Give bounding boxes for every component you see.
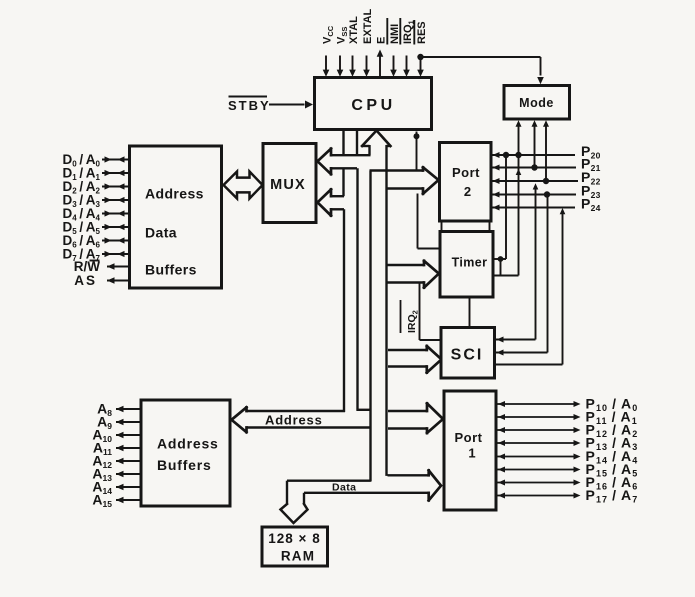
net label IRQ2 (active low) <box>401 300 420 333</box>
wire pin VSS <box>337 56 344 77</box>
svg-text:P17 / A7: P17 / A7 <box>586 487 639 505</box>
svg-text:Port: Port <box>452 165 480 180</box>
pin label D0/A0 <box>62 152 100 169</box>
wire data bus branch top edge to RAM <box>287 480 371 482</box>
wire IRQ2 Timer to SCI <box>420 284 442 341</box>
pin label A9 <box>97 414 112 432</box>
wire P15/A5 <box>496 467 581 473</box>
wire Mode to P20 / Timer (v1) <box>516 120 522 275</box>
pin label P14/A4 <box>586 448 639 466</box>
wire address bus left edge lower <box>343 209 345 412</box>
bus arrow into MUX lower <box>318 189 345 215</box>
pin label D7/A7 <box>62 247 100 264</box>
wire P16/A6 <box>496 480 581 486</box>
wire Mode to P21 (v2) <box>532 120 538 167</box>
net label Data <box>332 482 356 494</box>
block Address Data Buffers <box>130 146 222 288</box>
pin label P16/A6 <box>586 474 639 492</box>
pin label A8 <box>97 401 112 419</box>
bus double arrow MUX to Address Data Buffers <box>224 172 263 199</box>
wire address bus left edge mid <box>342 168 344 196</box>
pin label P24 <box>581 196 601 214</box>
wire A9 <box>116 419 141 425</box>
junction P21 at 534 <box>531 164 537 170</box>
pin label RES (active low) <box>414 20 428 45</box>
wire A14 <box>116 484 141 490</box>
wire Timer-SCI connector <box>469 297 471 328</box>
pin label A14 <box>92 479 112 497</box>
pin label EXTAL <box>362 8 374 44</box>
wire Port2-Timer left connector <box>441 221 443 232</box>
bus arrow into Port 2 <box>370 167 439 194</box>
pin label P23 <box>581 183 601 201</box>
svg-text:128 × 8: 128 × 8 <box>268 531 320 546</box>
wire D3/A3 <box>102 197 130 203</box>
svg-text:Port: Port <box>455 430 483 445</box>
junction P20 at 518 <box>515 152 521 158</box>
wire P11/A1 <box>496 414 581 420</box>
pin label VCC <box>321 25 335 44</box>
wire A8 <box>116 406 141 412</box>
wire Timer junction drop <box>500 259 502 276</box>
block SCI <box>441 328 495 379</box>
svg-text:Mode: Mode <box>519 96 554 110</box>
wire address bus left edge upper <box>342 130 344 156</box>
wire A11 <box>116 445 141 451</box>
svg-text:Buffers: Buffers <box>145 262 197 278</box>
svg-text:1: 1 <box>468 446 475 461</box>
pin label R/W (write active low) <box>74 259 101 274</box>
pin label NMI (active low) <box>387 18 401 45</box>
block 128x8 RAM <box>262 527 328 566</box>
block Timer <box>440 232 493 298</box>
block Port 1 <box>444 391 496 510</box>
wire A13 <box>116 471 141 477</box>
wire data/control bus right edge <box>385 145 387 476</box>
svg-text:Timer: Timer <box>452 256 488 270</box>
wire D2/A2 <box>102 183 130 189</box>
junction RES wire <box>417 54 423 60</box>
wire P14/A4 <box>496 454 581 460</box>
wire Port2-Timer right connector <box>489 221 491 232</box>
bus arrow into Address Buffers <box>232 407 372 432</box>
block MUX <box>263 144 316 223</box>
pin label D1/A1 <box>62 166 100 183</box>
svg-text:Address: Address <box>157 435 219 451</box>
wire D1/A1 <box>102 170 130 176</box>
junction P22 at 546 <box>543 178 549 184</box>
wire D5/A5 <box>102 224 130 230</box>
wire P17/A7 <box>496 493 581 499</box>
block CPU U1 <box>315 78 432 130</box>
junction P23 at 547 <box>544 191 550 197</box>
wire data bus left edge upper <box>368 145 370 155</box>
pin label D6/A6 <box>62 233 100 250</box>
pin label D2/A2 <box>62 179 100 196</box>
block Address Buffers <box>141 400 230 506</box>
junction Timer line at 500 <box>498 256 504 262</box>
pin label AS <box>74 273 97 288</box>
pin label P10/A0 <box>586 395 639 413</box>
wire P10/A0 <box>496 401 581 407</box>
bus arrow into Timer <box>388 261 439 288</box>
pin label P11/A1 <box>586 408 638 426</box>
svg-text:AS: AS <box>74 273 97 288</box>
block Mode <box>504 86 570 120</box>
svg-text:EXTAL: EXTAL <box>362 8 374 44</box>
svg-text:Address: Address <box>265 412 323 427</box>
wire data bus left edge main <box>369 171 371 482</box>
wire R/W <box>107 263 130 270</box>
wire pin E with up arrow <box>377 50 384 78</box>
pin label P12/A2 <box>586 421 639 439</box>
bus arrow into Port 1 lower <box>304 470 441 500</box>
wire pin NMI <box>390 56 397 77</box>
svg-text:RES: RES <box>416 21 428 44</box>
svg-text:Data: Data <box>145 225 177 241</box>
pin label D4/A4 <box>62 206 100 223</box>
pin label P20 <box>581 143 601 161</box>
wire Mode to P22 (v3) <box>543 120 549 181</box>
wire Timer lower to P21 drop <box>493 275 519 277</box>
pin label VSS <box>335 27 349 44</box>
bus arrow into MUX upper <box>318 149 371 175</box>
wire pin VCC <box>323 56 330 77</box>
wire data bus down to RAM left edge <box>286 481 288 505</box>
pin label P22 <box>581 169 601 187</box>
pin label A10 <box>92 427 112 445</box>
svg-text:NMI: NMI <box>389 24 401 44</box>
wire pin IRQ1 <box>403 56 410 77</box>
svg-text:STBY: STBY <box>228 98 271 113</box>
pin label D3/A3 <box>62 193 100 210</box>
wire D0/A0 <box>102 156 130 162</box>
svg-text:SCI: SCI <box>451 347 484 364</box>
svg-text:E: E <box>375 37 387 44</box>
wire P24 <box>491 205 575 211</box>
wire P13/A3 <box>496 440 581 446</box>
wire pin RES <box>417 57 424 77</box>
wire STBY to CPU <box>269 101 313 109</box>
svg-text:RAM: RAM <box>281 549 315 564</box>
wire address bus right edge lower <box>356 168 358 410</box>
pin label A13 <box>92 466 112 484</box>
wire A15 <box>116 497 141 503</box>
pin label A12 <box>92 453 112 471</box>
svg-text:Data: Data <box>332 482 356 494</box>
pin label P21 <box>581 156 601 174</box>
wire data bus down to RAM right edge <box>303 493 305 505</box>
wire pin XTAL <box>349 56 356 77</box>
bus arrow into Port 1 upper <box>388 403 443 433</box>
wire Timer to P20 <box>493 155 506 259</box>
junction CPU bottom <box>414 133 420 139</box>
pin label D5/A5 <box>62 220 100 237</box>
pin label A15 <box>92 492 112 510</box>
wire SCI to P22 <box>495 183 538 342</box>
svg-text:MUX: MUX <box>270 177 306 193</box>
svg-text:CPU: CPU <box>351 97 395 114</box>
wire P22 <box>491 178 578 184</box>
wire CPU to Timer control line <box>417 132 441 249</box>
wire D7/A7 <box>102 251 130 257</box>
net label Address <box>265 412 323 427</box>
wire P23 <box>491 192 576 198</box>
wire P20 <box>491 152 575 158</box>
junction P20 at 506 <box>503 152 509 158</box>
wire SCI to P23 <box>495 195 548 356</box>
bus arrow into CPU (data bus) <box>362 131 391 147</box>
pin label P17/A7 <box>586 487 639 505</box>
wire D4/A4 <box>102 210 130 216</box>
wire AS <box>107 277 130 284</box>
block Port 2 <box>440 143 492 222</box>
svg-text:Buffers: Buffers <box>157 457 212 473</box>
pin label STBY (active low) <box>228 97 271 114</box>
wire RES to Mode <box>421 57 544 84</box>
wire pin EXTAL <box>363 56 370 77</box>
pin label E <box>375 37 387 44</box>
wire SCI to P24 <box>495 208 565 365</box>
pin label XTAL <box>348 16 360 44</box>
svg-text:2: 2 <box>464 184 471 199</box>
wire address bus right edge upper <box>356 130 358 156</box>
wire P21 <box>491 165 576 171</box>
pin label P15/A5 <box>586 461 639 479</box>
pin label IRQ1 (active low) <box>400 18 415 45</box>
svg-text:XTAL: XTAL <box>348 16 360 44</box>
wire P12/A2 <box>496 427 581 433</box>
pin label P13/A3 <box>586 434 639 452</box>
wire A12 <box>116 458 141 464</box>
bus arrow into SCI <box>388 346 442 373</box>
wire address bus cap to data bus <box>357 409 372 411</box>
wire A10 <box>116 432 141 438</box>
bus arrow into RAM <box>281 504 308 524</box>
wire D6/A6 <box>102 237 130 243</box>
pin label A11 <box>93 440 112 458</box>
svg-text:Address: Address <box>145 186 204 202</box>
